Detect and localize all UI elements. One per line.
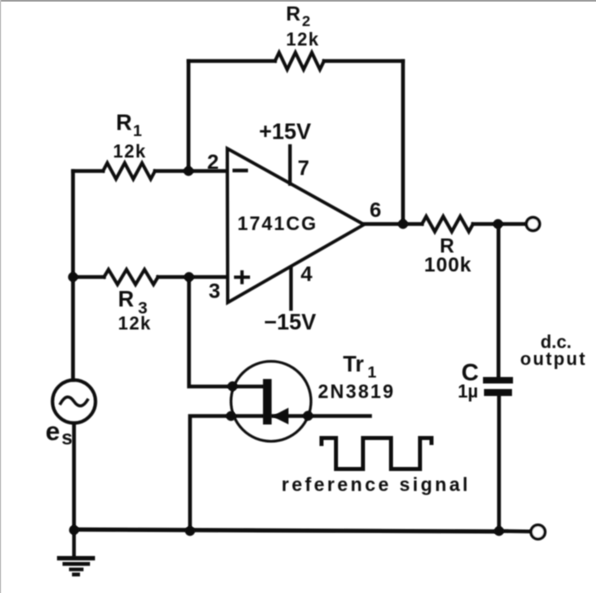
capacitor C top plate xyxy=(483,377,513,384)
wire feedback left vertical (node 2 to top rail) xyxy=(187,61,191,171)
capacitor C bottom plate xyxy=(484,389,512,396)
svg-text:output: output xyxy=(520,349,587,369)
resistor R1 12k zigzag xyxy=(103,163,155,179)
wire R1 left lead xyxy=(73,169,103,173)
output terminal lower (open circle) xyxy=(531,525,545,539)
wire bottom rail to lower terminal xyxy=(499,529,531,533)
svg-text:7: 7 xyxy=(298,157,310,180)
svg-text:100k: 100k xyxy=(424,255,472,277)
svg-text:12k: 12k xyxy=(286,30,320,50)
source es circle xyxy=(53,380,96,423)
svg-text:+15V: +15V xyxy=(259,119,311,144)
wire capacitor C down to bottom rail xyxy=(497,396,501,531)
transistor Tr1 gate arrowhead xyxy=(272,408,289,425)
wire output node to upper terminal xyxy=(498,222,526,226)
svg-text:3: 3 xyxy=(209,280,221,303)
svg-text:2N3819: 2N3819 xyxy=(318,382,395,403)
svg-text:1µ: 1µ xyxy=(458,382,478,402)
op-amp U1 power pin 7 wire xyxy=(288,146,292,184)
svg-text:2: 2 xyxy=(302,13,310,30)
svg-text:e: e xyxy=(46,416,60,446)
transistor Tr1 channel bar xyxy=(263,379,272,425)
junction FET drain at circle edge xyxy=(228,381,238,391)
wire feedback right vertical (top rail down to output node) xyxy=(401,61,405,224)
page border left edge xyxy=(0,0,1,593)
svg-text:1: 1 xyxy=(368,365,377,382)
wire R to output node xyxy=(473,222,498,226)
svg-text:6: 6 xyxy=(370,199,382,222)
wire node3 branch down to FET drain xyxy=(189,277,264,387)
svg-text:2: 2 xyxy=(207,151,219,174)
svg-text:1: 1 xyxy=(133,123,142,140)
op-amp non-inverting input plus sign xyxy=(234,276,250,279)
junction node 6 output/feedback xyxy=(398,219,408,229)
svg-text:s: s xyxy=(62,428,73,450)
svg-text:R: R xyxy=(116,110,132,135)
reference signal square wave xyxy=(322,438,432,469)
op-amp U1 power pin 4 wire xyxy=(289,268,293,310)
resistor R2 12k zigzag xyxy=(275,53,324,70)
op-amp inverting input minus sign xyxy=(233,169,249,173)
wire node 6 to resistor R xyxy=(403,222,422,226)
wire left vertical rail upper (R1 corner to R3 node) xyxy=(71,171,75,277)
source es sine wave xyxy=(61,397,88,406)
wire top rail right segment xyxy=(324,59,403,63)
junction node pin3/R3/FET branch xyxy=(184,272,194,282)
wire R3 left lead xyxy=(73,275,104,279)
svg-text:R: R xyxy=(286,4,301,26)
wire left vertical rail middle (R3 node to source es) xyxy=(71,277,75,380)
wire top rail left segment xyxy=(189,59,276,63)
wire bottom rail xyxy=(73,530,499,532)
svg-text:12k: 12k xyxy=(118,314,152,334)
page border top edge xyxy=(0,0,596,2)
output terminal upper (open circle) xyxy=(526,217,539,230)
junction bottom-left es/ground xyxy=(69,525,79,535)
svg-text:Tr: Tr xyxy=(343,352,364,377)
wire output node down to capacitor C xyxy=(497,224,501,377)
svg-text:12k: 12k xyxy=(113,142,147,162)
wire FET gate stub to reference signal xyxy=(273,414,371,418)
ground symbol bars xyxy=(57,556,95,560)
transistor Q Tr1 circle xyxy=(231,361,311,441)
resistor R 100k zigzag xyxy=(422,216,473,231)
wire FET source to bottom rail xyxy=(190,416,264,531)
junction bottom rail / FET source branch xyxy=(185,526,195,536)
junction node pin2/R1/feedback xyxy=(184,166,194,176)
svg-text:1741CG: 1741CG xyxy=(237,214,317,235)
resistor R3 12k zigzag xyxy=(104,270,158,285)
op-amp U1 1741CG triangle xyxy=(227,149,364,303)
wire op-amp output to node 6 xyxy=(364,222,403,226)
junction FET source at circle edge xyxy=(226,411,236,421)
junction node left rail / R3 xyxy=(68,272,78,282)
wire R1 right lead to op-amp pin 2 xyxy=(155,169,227,173)
junction bottom rail / capacitor xyxy=(494,526,504,536)
svg-text:reference signal: reference signal xyxy=(282,475,471,496)
wire R3 right lead to op-amp pin 3 xyxy=(158,275,227,279)
junction FET gate at circle edge xyxy=(303,411,313,421)
svg-text:R: R xyxy=(118,287,134,312)
svg-text:4: 4 xyxy=(301,263,313,286)
junction node R/C/terminal xyxy=(493,219,503,229)
wire left vertical rail lower (source es to bottom rail) xyxy=(72,424,76,531)
svg-text:−15V: −15V xyxy=(264,310,316,335)
ground stub wire xyxy=(72,530,76,556)
